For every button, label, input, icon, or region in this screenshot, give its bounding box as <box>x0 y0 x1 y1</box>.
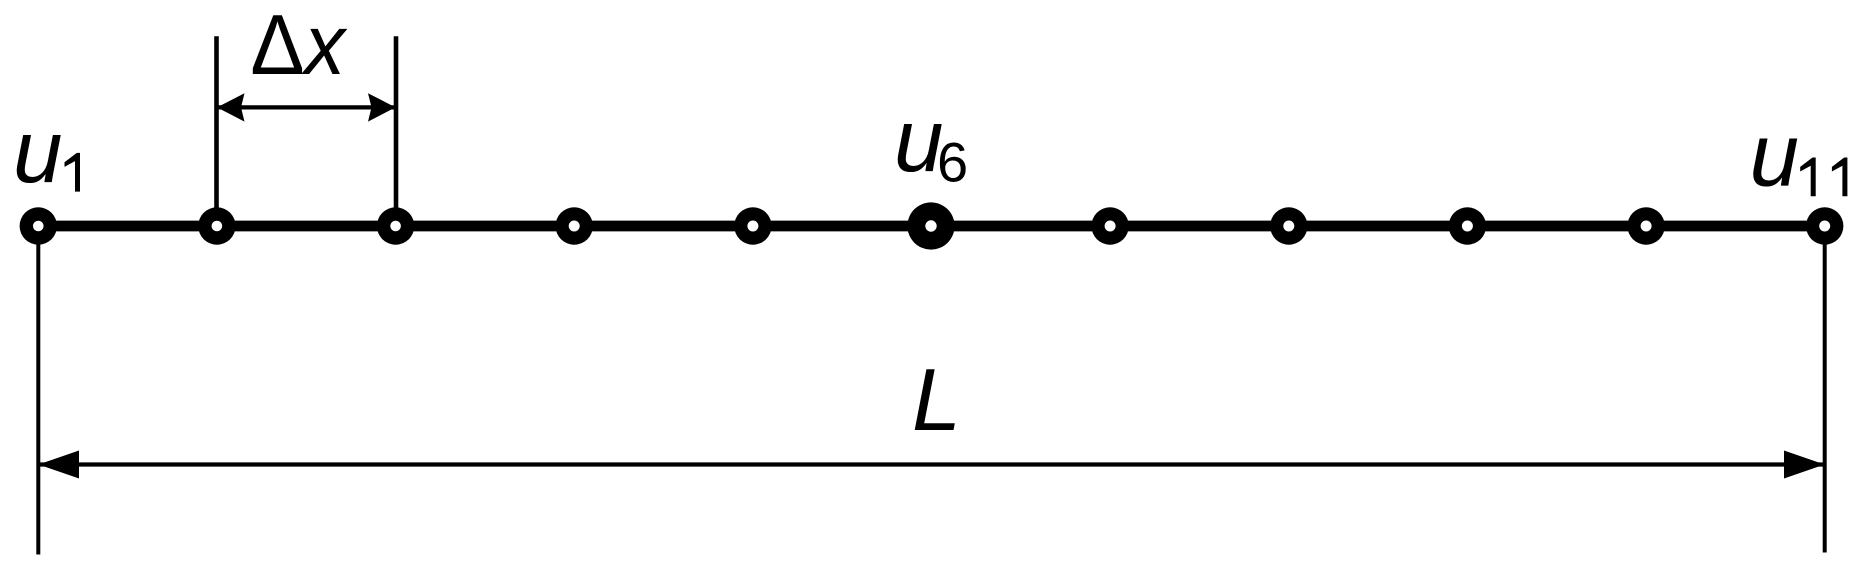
svg-text:u: u <box>13 101 63 201</box>
wire: dimension extension line below node u11 <box>1823 226 1827 553</box>
svg-text:Δx: Δx <box>250 0 347 93</box>
node u5 <box>734 207 771 244</box>
arrowhead right of delta-x dimension <box>368 93 396 121</box>
node u8 <box>1270 207 1307 244</box>
wire: main rod line <box>38 221 1824 232</box>
node u11 <box>1806 207 1843 244</box>
arrowhead left of L dimension <box>39 451 80 479</box>
label u1 <box>13 101 80 201</box>
wire: dimension extension line below node u1 <box>36 226 40 555</box>
arrowhead right of L dimension <box>1784 451 1825 479</box>
svg-text:u: u <box>1750 105 1800 205</box>
node u9 <box>1449 207 1486 244</box>
node u7 <box>1091 207 1128 244</box>
wire: dimension extension line above node u3 <box>394 36 399 226</box>
node u1 <box>20 207 57 244</box>
node u2 <box>198 207 235 244</box>
wire: dimension line for L <box>40 462 1823 466</box>
wire: dimension extension line above node u2 <box>214 36 219 226</box>
node u4 <box>556 207 593 244</box>
wire: dimension line for delta-x <box>218 105 395 109</box>
label u11 <box>1750 105 1848 205</box>
svg-text:6: 6 <box>937 131 968 194</box>
node u6 (larger) <box>907 202 954 249</box>
node u10 <box>1627 207 1664 244</box>
svg-text:L: L <box>912 350 961 449</box>
arrowhead left of delta-x dimension <box>217 93 245 121</box>
node u3 <box>377 207 414 244</box>
label u6 <box>894 90 968 194</box>
